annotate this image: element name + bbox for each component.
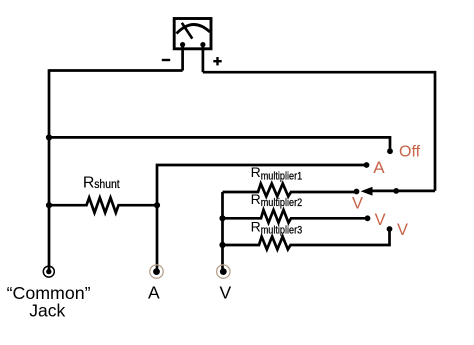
switch wiper arm (372, 190, 435, 193)
wire top-right horizontal (203, 71, 435, 74)
svg-text:V: V (397, 221, 408, 239)
jack V (217, 265, 230, 278)
svg-text:V: V (220, 283, 232, 303)
wire plus lead (202, 45, 205, 73)
switch wiper arrowhead (361, 187, 373, 196)
junction dot left rail / shunt (46, 202, 52, 208)
svg-text:shunt: shunt (94, 179, 120, 191)
junction dot rail / Rmultiplier3 (219, 242, 225, 248)
switch contact Off (387, 148, 393, 154)
svg-text:R: R (83, 174, 95, 191)
switch contact V2 (365, 215, 371, 221)
svg-text:R: R (251, 191, 261, 207)
switch wiper pivot dot (393, 188, 399, 194)
svg-text:Off: Off (399, 144, 421, 161)
junction dot rail / Rmultiplier2 (219, 215, 225, 221)
wire minus lead (181, 45, 184, 71)
switch contact V3 (387, 226, 393, 232)
junction dot left rail / Off row (46, 134, 52, 140)
jack A (150, 265, 163, 278)
switch contact A (364, 162, 370, 168)
svg-text:A: A (373, 158, 385, 177)
meter M1 (174, 19, 211, 49)
svg-text:V: V (375, 211, 386, 229)
wire Off row (49, 137, 390, 149)
wire A jack lead (156, 205, 159, 271)
svg-text:R: R (251, 164, 261, 180)
label plus (213, 57, 221, 65)
wire left rail (48, 69, 51, 271)
meter terminal dot + (200, 42, 205, 47)
resistor Rmultiplier3 (223, 229, 390, 249)
jack Common (43, 266, 54, 277)
svg-text:R: R (251, 219, 261, 235)
svg-text:multiplier3: multiplier3 (261, 224, 303, 236)
wire top-left horizontal (49, 69, 183, 72)
switch contact V1 (354, 189, 360, 195)
svg-text:A: A (148, 283, 160, 303)
svg-text:V: V (352, 195, 363, 213)
svg-text:Jack: Jack (29, 300, 65, 320)
junction dot A lead / shunt (154, 202, 160, 208)
svg-text:multiplier2: multiplier2 (261, 197, 303, 209)
resistor Rshunt (49, 198, 157, 213)
meter terminal dot - (180, 42, 185, 47)
resistor Rmultiplier2 (223, 210, 368, 223)
label minus (162, 59, 170, 61)
wire multiplier network rail (221, 192, 224, 271)
wire A row (157, 165, 367, 205)
svg-text:multiplier1: multiplier1 (261, 171, 303, 183)
wire right rail (434, 71, 437, 191)
resistor Rmultiplier1 (223, 184, 357, 197)
